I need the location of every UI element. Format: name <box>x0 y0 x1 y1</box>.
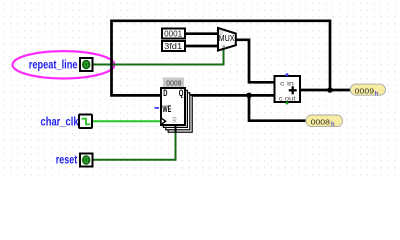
wire MUX out to adder input A <box>236 40 275 83</box>
svg-text:3fd1: 3fd1 <box>164 41 182 51</box>
wire feedback loop top (adder out to register D) <box>112 21 331 96</box>
junction on Q net <box>246 93 252 99</box>
probe display 0008h <box>306 115 343 128</box>
wire constant 3fd1 to MUX in1 <box>185 45 218 48</box>
register R pin stub through sheets <box>175 125 177 132</box>
svg-text:0008: 0008 <box>166 78 181 87</box>
carry-in floating dot (blue) <box>286 73 289 76</box>
svg-text:MUX: MUX <box>219 34 236 43</box>
constant 0001 <box>162 29 185 39</box>
svg-text:char_clk: char_clk <box>41 114 79 128</box>
wire repeat_line to MUX select (net value 0, dark green) <box>93 49 224 65</box>
svg-text:D: D <box>163 88 167 98</box>
svg-text:reset: reset <box>56 153 77 167</box>
wire constant 0001 to MUX in0 <box>185 32 218 35</box>
svg-text:WE: WE <box>162 104 171 114</box>
wire adder out to 0009 probe <box>300 89 350 92</box>
register R1 main box <box>161 88 185 125</box>
clock component char_clk <box>79 115 92 129</box>
wire char_clk to register clock (value 1, bright green) <box>92 120 161 122</box>
svg-text:0008: 0008 <box>311 118 330 127</box>
input pin repeat_line <box>80 58 93 71</box>
register R1 stacked sheets <box>163 90 192 132</box>
adder U2 <box>275 73 301 104</box>
svg-text:0001: 0001 <box>164 29 182 39</box>
svg-text:R: R <box>172 116 177 125</box>
svg-text:h: h <box>331 122 335 128</box>
multiplexer U1 <box>218 28 236 51</box>
constant 3fd1 <box>162 41 185 51</box>
wire reset to register R pin (dark green) <box>93 127 176 160</box>
input pin reset <box>80 154 93 167</box>
annotation ellipse around repeat_line <box>13 51 115 78</box>
WE floating pin stub (blue) <box>155 107 160 109</box>
wire Q tap down to 0008 probe <box>249 95 306 120</box>
clock triangle <box>161 118 166 125</box>
probe display 0009h <box>350 84 385 97</box>
register value label 0008 <box>163 78 184 88</box>
svg-text:0009: 0009 <box>355 87 374 96</box>
wire register Q to adder input B <box>185 94 275 97</box>
svg-text:repeat_line: repeat_line <box>29 57 78 71</box>
carry-out dot (green) <box>286 102 289 105</box>
junction on adder output net <box>327 87 333 93</box>
svg-text:Q: Q <box>179 88 184 98</box>
svg-text:h: h <box>375 91 379 97</box>
